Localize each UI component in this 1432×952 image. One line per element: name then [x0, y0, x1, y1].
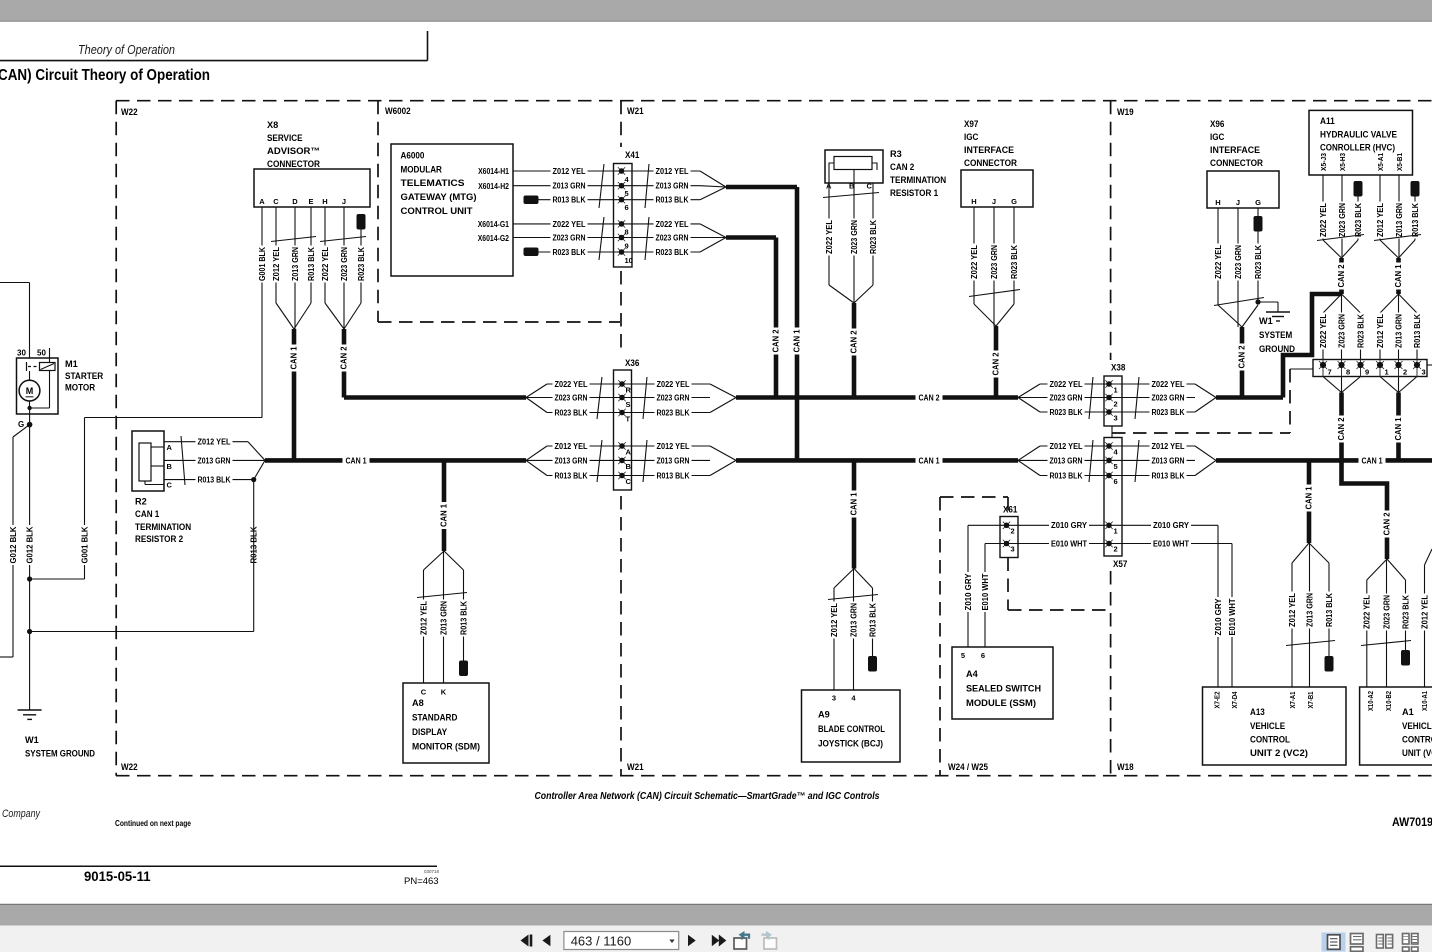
svg-text:Z023 GRN: Z023 GRN — [657, 393, 690, 402]
svg-text:X6014-G1: X6014-G1 — [478, 220, 510, 229]
svg-text:X10-A1: X10-A1 — [1420, 691, 1429, 711]
svg-text:Z022 YEL: Z022 YEL — [555, 380, 588, 389]
svg-text:STARTER: STARTER — [65, 371, 104, 381]
svg-text:X57: X57 — [1113, 559, 1127, 569]
svg-text:Z013 GRN: Z013 GRN — [1395, 203, 1404, 237]
svg-text:R013 BLK: R013 BLK — [868, 603, 877, 637]
svg-text:Z023 GRN: Z023 GRN — [553, 233, 586, 242]
svg-text:X61: X61 — [1003, 505, 1017, 515]
svg-text:Z023 GRN: Z023 GRN — [990, 245, 999, 279]
svg-text:X5-H3: X5-H3 — [1338, 153, 1347, 171]
svg-text:CONTROL: CONTROL — [1250, 735, 1290, 745]
svg-text:K: K — [441, 688, 447, 697]
svg-text:Company: Company — [2, 808, 41, 820]
svg-text:A6000: A6000 — [401, 151, 425, 161]
svg-text:5: 5 — [625, 189, 629, 198]
svg-text:X7-D4: X7-D4 — [1230, 691, 1239, 709]
svg-text:Z010 GRY: Z010 GRY — [1051, 521, 1088, 530]
svg-text:5: 5 — [1114, 462, 1118, 471]
svg-text:RESISTOR 2: RESISTOR 2 — [135, 534, 183, 544]
svg-text:R013 BLK: R013 BLK — [1152, 471, 1185, 480]
svg-text:H: H — [322, 197, 327, 206]
svg-text:GROUND: GROUND — [1259, 344, 1295, 354]
svg-text:MODULAR: MODULAR — [401, 164, 443, 174]
svg-text:G012 BLK: G012 BLK — [25, 526, 34, 563]
svg-text:Z013 GRN: Z013 GRN — [198, 456, 231, 465]
svg-text:R023 BLK: R023 BLK — [555, 408, 588, 417]
svg-text:R023 BLK: R023 BLK — [1152, 408, 1185, 417]
svg-text:X7-B1: X7-B1 — [1306, 692, 1315, 709]
svg-text:CONNECTOR: CONNECTOR — [267, 159, 320, 169]
svg-text:3: 3 — [1114, 414, 1118, 423]
svg-text:Z013 GRN: Z013 GRN — [553, 182, 586, 191]
svg-text:SEALED SWITCH: SEALED SWITCH — [966, 684, 1041, 694]
svg-text:Z023 GRN: Z023 GRN — [555, 393, 588, 402]
svg-text:R023 BLK: R023 BLK — [357, 247, 366, 281]
svg-text:R013 BLK: R013 BLK — [307, 247, 316, 281]
svg-text:A13: A13 — [1250, 707, 1265, 717]
svg-text:A1: A1 — [1402, 707, 1414, 717]
svg-text:Z013 GRN: Z013 GRN — [1394, 314, 1403, 348]
svg-text:VEHICLE: VEHICLE — [1402, 721, 1432, 731]
svg-text:R3: R3 — [890, 149, 902, 159]
svg-text:Z023 GRN: Z023 GRN — [1234, 245, 1243, 279]
svg-text:MOTOR: MOTOR — [65, 383, 95, 393]
svg-text:C: C — [867, 182, 873, 191]
svg-text:W21: W21 — [627, 106, 644, 116]
svg-text:IGC: IGC — [964, 132, 979, 142]
svg-text:G001 BLK: G001 BLK — [80, 526, 89, 563]
svg-text:GATEWAY (MTG): GATEWAY (MTG) — [401, 192, 477, 202]
svg-text:Z022 YEL: Z022 YEL — [321, 247, 330, 281]
svg-text:6: 6 — [1114, 477, 1118, 486]
svg-text:3: 3 — [1011, 545, 1015, 554]
svg-text:3: 3 — [832, 694, 836, 703]
svg-text:Z023 GRN: Z023 GRN — [1382, 595, 1391, 629]
svg-text:A: A — [167, 443, 173, 452]
svg-text:Z022 YEL: Z022 YEL — [1319, 203, 1328, 237]
svg-text:W24 / W25: W24 / W25 — [948, 762, 988, 772]
svg-text:T: T — [626, 415, 631, 424]
svg-text:R023 BLK: R023 BLK — [1254, 245, 1263, 279]
svg-text:TERMINATION: TERMINATION — [890, 175, 947, 185]
svg-text:X7-E2: X7-E2 — [1212, 692, 1221, 709]
svg-text:R023 BLK: R023 BLK — [656, 248, 689, 257]
svg-text:IGC: IGC — [1210, 132, 1225, 142]
svg-text:Z012 YEL: Z012 YEL — [657, 442, 690, 451]
svg-text:B: B — [626, 462, 632, 471]
svg-text:W22: W22 — [121, 107, 138, 117]
svg-text:ADVISOR™: ADVISOR™ — [267, 146, 320, 156]
svg-text:H: H — [971, 197, 976, 206]
svg-text:R023 BLK: R023 BLK — [553, 248, 586, 257]
svg-text:Z012 YEL: Z012 YEL — [1152, 442, 1185, 451]
svg-text:CONTROL: CONTROL — [1402, 735, 1432, 745]
svg-text:W22: W22 — [121, 762, 138, 772]
svg-text:R023 BLK: R023 BLK — [657, 408, 690, 417]
svg-text:CAN 2: CAN 2 — [340, 346, 349, 369]
svg-text:Z022 YEL: Z022 YEL — [1319, 314, 1328, 348]
svg-text:X5-A1: X5-A1 — [1376, 153, 1385, 171]
svg-text:CONROLLER (HVC): CONROLLER (HVC) — [1320, 143, 1395, 153]
svg-text:CAN 2: CAN 2 — [1337, 417, 1346, 440]
svg-text:UNIT 2 (VC2): UNIT 2 (VC2) — [1250, 748, 1308, 758]
svg-text:W6002: W6002 — [385, 106, 411, 116]
svg-text:10: 10 — [625, 256, 633, 265]
svg-text:G: G — [1255, 198, 1261, 207]
svg-text:R013 BLK: R013 BLK — [553, 196, 586, 205]
svg-text:MONITOR (SDM): MONITOR (SDM) — [412, 742, 480, 752]
svg-text:X7-A1: X7-A1 — [1288, 692, 1297, 709]
svg-text:Z010 GRY: Z010 GRY — [1153, 521, 1190, 530]
svg-text:X96: X96 — [1210, 119, 1224, 129]
svg-text:Z022 YEL: Z022 YEL — [656, 220, 689, 229]
svg-text:R013 BLK: R013 BLK — [198, 476, 231, 485]
svg-text:W1: W1 — [25, 735, 39, 745]
svg-text:Z023 GRN: Z023 GRN — [1050, 393, 1083, 402]
svg-text:A4: A4 — [966, 669, 979, 679]
svg-text:X38: X38 — [1111, 363, 1125, 373]
svg-text:CAN 1: CAN 1 — [290, 346, 299, 369]
svg-text:SYSTEM GROUND: SYSTEM GROUND — [25, 749, 95, 759]
svg-text:R023 BLK: R023 BLK — [1354, 203, 1363, 237]
svg-text:C: C — [273, 197, 279, 206]
svg-text:CAN 2: CAN 2 — [772, 329, 781, 352]
svg-text:CAN 1: CAN 1 — [1362, 456, 1383, 465]
svg-text:W18: W18 — [1117, 762, 1134, 772]
svg-text:Z013 GRN: Z013 GRN — [657, 456, 690, 465]
svg-text:H: H — [1215, 198, 1220, 207]
svg-text:Z022 YEL: Z022 YEL — [657, 380, 690, 389]
svg-text:CONNECTOR: CONNECTOR — [964, 158, 1017, 168]
svg-text:A9: A9 — [818, 710, 830, 720]
svg-text:Z013 GRN: Z013 GRN — [849, 603, 858, 637]
svg-text:MODULE (SSM): MODULE (SSM) — [966, 698, 1036, 708]
svg-text:CAN 2: CAN 2 — [850, 330, 859, 353]
svg-text:R013 BLK: R013 BLK — [1325, 593, 1334, 627]
svg-text:3: 3 — [1422, 368, 1426, 377]
svg-text:SYSTEM: SYSTEM — [1259, 330, 1293, 340]
svg-text:Z012 YEL: Z012 YEL — [272, 247, 281, 281]
svg-text:6: 6 — [625, 203, 629, 212]
svg-text:R013 BLK: R013 BLK — [656, 196, 689, 205]
svg-text:CAN 2: CAN 2 — [919, 394, 940, 403]
svg-text:C: C — [626, 477, 632, 486]
svg-text:STANDARD: STANDARD — [412, 713, 458, 723]
svg-text:R013 BLK: R013 BLK — [1050, 471, 1083, 480]
svg-text:30: 30 — [17, 349, 26, 358]
svg-text:X5-B1: X5-B1 — [1395, 153, 1404, 171]
svg-text:CAN 1: CAN 1 — [346, 456, 367, 465]
svg-text:5: 5 — [961, 651, 965, 660]
svg-text:6: 6 — [981, 651, 985, 660]
svg-text:S: S — [626, 400, 631, 409]
svg-text:SERVICE: SERVICE — [267, 133, 303, 143]
svg-text:X41: X41 — [625, 150, 639, 160]
svg-text:A8: A8 — [412, 698, 424, 708]
svg-text:CAN 1: CAN 1 — [850, 492, 859, 515]
svg-text:Z023 GRN: Z023 GRN — [1152, 393, 1185, 402]
svg-text:G012 BLK: G012 BLK — [9, 526, 18, 563]
svg-text:CAN 2: CAN 2 — [890, 162, 914, 172]
svg-text:Continued on next page: Continued on next page — [115, 819, 191, 828]
svg-text:Z022 YEL: Z022 YEL — [553, 220, 586, 229]
svg-text:R023 BLK: R023 BLK — [1356, 314, 1365, 348]
svg-text:X97: X97 — [964, 119, 978, 129]
svg-text:BLADE CONTROL: BLADE CONTROL — [818, 724, 885, 734]
svg-text:Z013 GRN: Z013 GRN — [1050, 456, 1083, 465]
svg-text:Z022 YEL: Z022 YEL — [825, 220, 834, 254]
svg-text:W21: W21 — [627, 762, 644, 772]
svg-text:Controller Area Network (CAN): Controller Area Network (CAN) Circuit Sc… — [535, 791, 880, 802]
svg-text:2: 2 — [1114, 545, 1118, 554]
svg-text:Z013 GRN: Z013 GRN — [656, 182, 689, 191]
svg-text:R013 BLK: R013 BLK — [1411, 203, 1420, 237]
svg-text:X5-J3: X5-J3 — [1319, 153, 1328, 171]
svg-text:Z012 YEL: Z012 YEL — [198, 438, 231, 447]
svg-text:Z023 GRN: Z023 GRN — [1337, 314, 1346, 348]
svg-text:X6014-G2: X6014-G2 — [478, 234, 510, 243]
svg-text:Z013 GRN: Z013 GRN — [439, 601, 448, 635]
svg-text:CAN 2: CAN 2 — [1337, 264, 1346, 287]
svg-text:E010 WHT: E010 WHT — [1153, 539, 1189, 548]
svg-text:Z012 YEL: Z012 YEL — [1376, 314, 1385, 348]
svg-text:VEHICLE: VEHICLE — [1250, 721, 1285, 731]
svg-text:INTERFACE: INTERFACE — [964, 145, 1014, 155]
svg-text:R013 BLK: R013 BLK — [459, 601, 468, 635]
svg-text:R023 BLK: R023 BLK — [1401, 595, 1410, 629]
svg-text:Z012 YEL: Z012 YEL — [553, 167, 586, 176]
svg-text:9: 9 — [625, 242, 629, 251]
svg-text:Z010 GRY: Z010 GRY — [964, 573, 973, 611]
svg-text:Z023 GRN: Z023 GRN — [1338, 203, 1347, 237]
svg-text:Z012 YEL: Z012 YEL — [419, 601, 428, 635]
svg-text:CAN) Circuit Theory of Operati: CAN) Circuit Theory of Operation — [0, 67, 210, 84]
svg-text:X10-B2: X10-B2 — [1384, 691, 1393, 711]
svg-text:9015-05-11: 9015-05-11 — [84, 868, 151, 884]
svg-text:8: 8 — [625, 228, 629, 237]
svg-text:CAN 1: CAN 1 — [793, 329, 802, 352]
svg-text:M1: M1 — [65, 359, 78, 369]
svg-text:R023 BLK: R023 BLK — [1010, 245, 1019, 279]
svg-text:Z022 YEL: Z022 YEL — [1050, 380, 1083, 389]
svg-text:X8: X8 — [267, 120, 278, 130]
svg-text:M: M — [26, 386, 34, 396]
svg-text:J: J — [342, 197, 346, 206]
svg-text:CAN 1: CAN 1 — [919, 456, 940, 465]
svg-text:1: 1 — [1114, 527, 1118, 536]
svg-text:TELEMATICS: TELEMATICS — [401, 178, 465, 188]
svg-text:Z012 YEL: Z012 YEL — [656, 167, 689, 176]
svg-text:X10-A2: X10-A2 — [1366, 691, 1375, 711]
svg-text:CAN 2: CAN 2 — [1238, 345, 1247, 368]
svg-text:2: 2 — [1011, 527, 1015, 536]
svg-text:Z022 YEL: Z022 YEL — [970, 245, 979, 279]
svg-text:Z012 YEL: Z012 YEL — [1050, 442, 1083, 451]
svg-text:Z010 GRY: Z010 GRY — [1214, 598, 1223, 636]
svg-text:TERMINATION: TERMINATION — [135, 522, 192, 532]
svg-text:HYDRAULIC VALVE: HYDRAULIC VALVE — [1320, 130, 1397, 140]
svg-text:2: 2 — [1403, 368, 1407, 377]
svg-text:2: 2 — [1114, 400, 1118, 409]
svg-text:R013 BLK: R013 BLK — [555, 471, 588, 480]
svg-text:X36: X36 — [625, 358, 639, 368]
svg-text:W19: W19 — [1117, 107, 1134, 117]
svg-text:1: 1 — [1114, 386, 1118, 395]
svg-text:CAN 1: CAN 1 — [135, 509, 159, 519]
svg-text:Z012 YEL: Z012 YEL — [555, 442, 588, 451]
svg-text:50: 50 — [37, 349, 46, 358]
svg-text:Z013 GRN: Z013 GRN — [555, 456, 588, 465]
svg-text:CAN 1: CAN 1 — [440, 504, 449, 527]
svg-text:Z013 GRN: Z013 GRN — [1152, 456, 1185, 465]
svg-text:G001 BLK: G001 BLK — [258, 247, 267, 281]
svg-text:CONNECTOR: CONNECTOR — [1210, 158, 1263, 168]
svg-text:J: J — [1236, 198, 1240, 207]
svg-text:R023 BLK: R023 BLK — [1050, 408, 1083, 417]
svg-text:J: J — [992, 197, 996, 206]
svg-text:Z012 YEL: Z012 YEL — [1376, 203, 1385, 237]
svg-text:A11: A11 — [1320, 116, 1335, 126]
svg-text:INTERFACE: INTERFACE — [1210, 145, 1260, 155]
svg-text:E: E — [308, 197, 313, 206]
svg-text:RESISTOR 1: RESISTOR 1 — [890, 188, 938, 198]
svg-text:R013 BLK: R013 BLK — [657, 471, 690, 480]
svg-text:Z023 GRN: Z023 GRN — [340, 247, 349, 281]
svg-text:B: B — [167, 462, 173, 471]
svg-text:CAN 2: CAN 2 — [1383, 512, 1392, 535]
svg-text:CAN 1: CAN 1 — [1394, 417, 1403, 440]
svg-text:1: 1 — [1385, 368, 1389, 377]
svg-text:Z012 YEL: Z012 YEL — [1420, 595, 1429, 629]
svg-text:R: R — [626, 386, 632, 395]
svg-text:CAN 1: CAN 1 — [1394, 264, 1403, 287]
svg-text:A: A — [259, 197, 265, 206]
svg-text:X6014-H1: X6014-H1 — [478, 167, 509, 176]
svg-text:E010 WHT: E010 WHT — [1051, 539, 1087, 548]
svg-text:Theory of Operation: Theory of Operation — [78, 43, 175, 57]
svg-text:X6014-H2: X6014-H2 — [478, 182, 509, 191]
svg-text:D: D — [292, 197, 298, 206]
svg-text:G: G — [18, 420, 24, 429]
svg-text:C: C — [421, 688, 427, 697]
svg-text:JOYSTICK (BCJ): JOYSTICK (BCJ) — [818, 739, 883, 749]
svg-text:Z023 GRN: Z023 GRN — [656, 233, 689, 242]
svg-text:C: C — [167, 481, 173, 490]
svg-text:CONTROL UNIT: CONTROL UNIT — [401, 206, 473, 216]
svg-text:7: 7 — [1328, 368, 1332, 377]
svg-text:463 / 1160: 463 / 1160 — [571, 934, 631, 949]
svg-text:R023 BLK: R023 BLK — [869, 220, 878, 254]
svg-text:Z023 GRN: Z023 GRN — [850, 220, 859, 254]
svg-text:030718: 030718 — [424, 869, 440, 874]
svg-text:CAN 1: CAN 1 — [1305, 486, 1314, 509]
svg-text:Z013 GRN: Z013 GRN — [1305, 593, 1314, 627]
svg-text:R2: R2 — [135, 497, 147, 507]
svg-text:CAN 2: CAN 2 — [992, 352, 1001, 375]
svg-text:G: G — [1011, 197, 1017, 206]
svg-text:Z022 YEL: Z022 YEL — [1214, 245, 1223, 279]
svg-text:E010 WHT: E010 WHT — [1228, 598, 1237, 635]
svg-text:Z013 GRN: Z013 GRN — [291, 247, 300, 281]
svg-text:UNIT (VCU: UNIT (VCU — [1402, 748, 1432, 758]
svg-text:W1: W1 — [1259, 316, 1273, 326]
svg-text:Z022 YEL: Z022 YEL — [1152, 380, 1185, 389]
svg-text:8: 8 — [1346, 368, 1350, 377]
svg-text:DISPLAY: DISPLAY — [412, 727, 447, 737]
svg-text:R013 BLK: R013 BLK — [1413, 314, 1422, 348]
svg-text:AW70198: AW70198 — [1392, 815, 1432, 829]
svg-text:Z012 YEL: Z012 YEL — [830, 603, 839, 637]
svg-text:Z022 YEL: Z022 YEL — [1363, 595, 1372, 629]
svg-text:E010 WHT: E010 WHT — [981, 573, 990, 610]
svg-text:9: 9 — [1365, 368, 1369, 377]
svg-text:A: A — [626, 448, 632, 457]
svg-text:Z012 YEL: Z012 YEL — [1288, 593, 1297, 627]
svg-text:PN=463: PN=463 — [404, 876, 439, 887]
